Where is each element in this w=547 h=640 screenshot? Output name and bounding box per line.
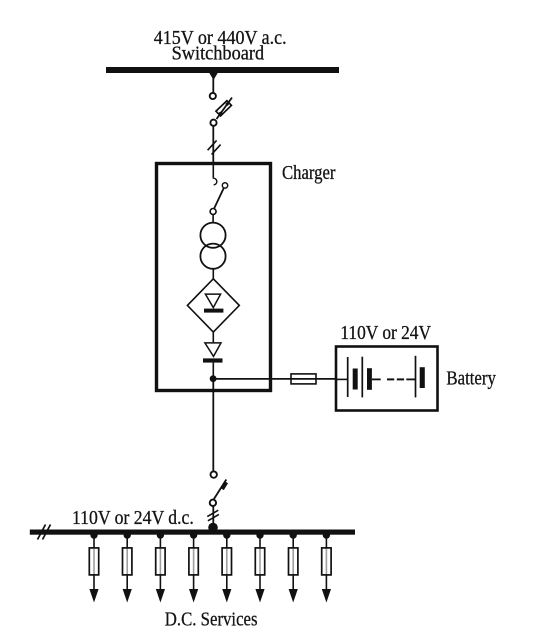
wire: charger output down to d.c. isolator — [212, 379, 214, 471]
junction on a.c. busbar — [209, 73, 217, 80]
svg-text:D.C. Services: D.C. Services — [165, 609, 258, 631]
wire: junction to battery box — [213, 378, 336, 380]
isolator contact circle (upper) — [210, 93, 216, 99]
svg-text:110V or 24V: 110V or 24V — [340, 322, 431, 344]
d.c. feeder 5 — [222, 531, 231, 602]
blocking diode D1 — [203, 343, 223, 376]
junction blob on d.c. busbar — [208, 523, 218, 533]
d.c. feeder 1 (junction, fuse, arrow) — [89, 531, 98, 602]
wire: busbar to isolator — [212, 73, 214, 93]
d.c. feeder 4 — [189, 531, 198, 602]
svg-text:110V or 24V d.c.: 110V or 24V d.c. — [72, 507, 194, 529]
battery enclosure box — [336, 347, 438, 411]
d.c. feeder 8 — [322, 531, 331, 602]
fuse-switch blade with fuse F1 (open, slanted) — [216, 98, 232, 120]
busbar: d.c. distribution — [30, 530, 355, 535]
wire: isolator to d.c. busbar — [212, 506, 214, 530]
switch blade with fuse (d.c., open) — [213, 480, 228, 501]
svg-text:Battery: Battery — [446, 368, 496, 390]
svg-text:Charger: Charger — [282, 162, 336, 184]
battery fuse F2 — [291, 374, 316, 384]
wire: isolator to charger box — [212, 127, 214, 163]
junction node (charger d.c. output) — [210, 375, 217, 382]
switch (open) inside charger — [210, 165, 228, 223]
wire: transformer to rectifier — [212, 269, 214, 279]
busbar continuation mark // — [38, 525, 51, 540]
break mark (double slash) above d.c. busbar — [207, 510, 219, 521]
d.c. feeder 6 — [255, 531, 264, 602]
transformer T1 — [200, 223, 225, 269]
battery cells — [336, 356, 425, 398]
d.c. feeder 7 — [289, 531, 298, 602]
isolator contact circle (d.c. lower) — [210, 500, 216, 506]
charger enclosure box — [157, 164, 271, 391]
busbar: a.c. switchboard — [106, 67, 339, 73]
d.c. feeder 2 — [123, 531, 132, 602]
isolator contact circle (d.c. upper) — [211, 471, 217, 477]
d.c. feeder 3 — [156, 531, 165, 602]
isolator contact circle (lower) — [210, 120, 216, 126]
wire: rectifier to blocking diode — [212, 332, 214, 343]
svg-text:Switchboard: Switchboard — [172, 43, 265, 65]
rectifier bridge (diamond with diode) — [187, 279, 239, 332]
break mark (double slash) on incoming wire — [208, 140, 221, 154]
